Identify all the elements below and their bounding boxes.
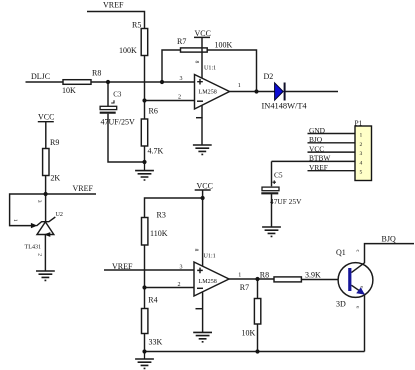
svg-text:VCC: VCC [197, 181, 213, 190]
svg-text:110K: 110K [150, 229, 168, 238]
svg-text:R4: R4 [148, 296, 157, 305]
svg-text:2: 2 [37, 253, 43, 256]
svg-text:2: 2 [178, 95, 181, 101]
svg-text:8: 8 [194, 61, 200, 64]
svg-text:BJQ: BJQ [309, 135, 323, 144]
svg-text:R6: R6 [149, 107, 158, 116]
svg-text:U2: U2 [56, 212, 63, 218]
svg-text:R9: R9 [50, 138, 59, 147]
svg-text:LM258: LM258 [199, 90, 217, 96]
svg-text:3D: 3D [336, 300, 346, 309]
svg-text:3: 3 [360, 151, 363, 157]
svg-text:BTBW: BTBW [309, 154, 330, 163]
svg-text:VCC: VCC [195, 29, 211, 38]
svg-text:TL431: TL431 [25, 244, 42, 250]
svg-text:R8: R8 [260, 271, 269, 280]
svg-text:3: 3 [180, 265, 183, 271]
svg-text:2: 2 [178, 282, 181, 288]
svg-text:IN4148W/T4: IN4148W/T4 [262, 102, 308, 111]
svg-text:8: 8 [193, 249, 199, 252]
svg-text:BJQ: BJQ [382, 235, 396, 244]
svg-text:4: 4 [360, 160, 363, 166]
svg-text:1: 1 [238, 83, 241, 89]
svg-text:VCC: VCC [309, 144, 324, 153]
svg-text:5: 5 [360, 170, 363, 176]
svg-text:1: 1 [12, 219, 18, 222]
svg-text:2: 2 [360, 142, 363, 148]
svg-text:LM258: LM258 [199, 279, 217, 285]
svg-text:3.9K: 3.9K [305, 271, 321, 280]
svg-text:100K: 100K [215, 41, 233, 50]
svg-text:10K: 10K [62, 86, 76, 95]
svg-text:R7: R7 [177, 37, 186, 46]
svg-text:U1:1: U1:1 [204, 253, 216, 259]
svg-text:47UF 25V: 47UF 25V [270, 197, 302, 206]
svg-text:R8: R8 [92, 69, 101, 78]
svg-text:P1: P1 [355, 119, 363, 128]
svg-text:4.7K: 4.7K [148, 147, 164, 156]
svg-text:3: 3 [36, 200, 42, 203]
svg-text:10K: 10K [242, 329, 256, 338]
svg-text:C3: C3 [113, 91, 122, 99]
svg-text:DLJC: DLJC [31, 72, 50, 81]
svg-text:D2: D2 [264, 72, 274, 81]
svg-text:GND: GND [309, 126, 326, 135]
svg-text:R3: R3 [157, 211, 166, 220]
svg-text:VCC: VCC [38, 112, 54, 121]
svg-text:R7: R7 [240, 283, 249, 292]
svg-text:33K: 33K [149, 338, 163, 347]
svg-text:Q1: Q1 [336, 248, 346, 257]
svg-text:1: 1 [238, 272, 241, 278]
svg-text:VREF: VREF [112, 262, 133, 271]
svg-text:C5: C5 [274, 171, 283, 180]
svg-text:3: 3 [180, 76, 183, 82]
svg-text:VREF: VREF [103, 1, 124, 10]
svg-text:100K: 100K [119, 46, 137, 55]
svg-text:U1:1: U1:1 [204, 66, 216, 72]
svg-text:R5: R5 [132, 21, 141, 30]
svg-text:VREF: VREF [309, 163, 328, 172]
svg-text:1: 1 [360, 133, 363, 139]
svg-text:47UF/25V: 47UF/25V [101, 118, 135, 127]
svg-text:VREF: VREF [73, 184, 94, 193]
svg-text:2K: 2K [50, 173, 60, 182]
